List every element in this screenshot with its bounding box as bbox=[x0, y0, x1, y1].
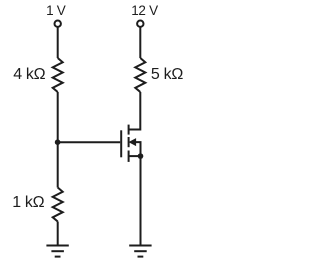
svg-text:4 kΩ: 4 kΩ bbox=[13, 66, 45, 83]
gate bar bbox=[120, 130, 122, 157]
wire 12V terminal to R3 top bbox=[139, 27, 141, 58]
wire R2 bottom to ground bbox=[57, 222, 59, 246]
channel drain segment bbox=[128, 125, 130, 135]
svg-text:5 kΩ: 5 kΩ bbox=[151, 66, 183, 83]
svg-text:1 kΩ: 1 kΩ bbox=[12, 194, 44, 211]
channel body segment bbox=[128, 137, 130, 147]
resistor R3 5 kOhm bbox=[135, 58, 145, 92]
bulk arrow bbox=[130, 139, 136, 145]
svg-text:12 V: 12 V bbox=[131, 3, 158, 18]
wire source of M1 to ground bbox=[140, 156, 142, 245]
channel source segment bbox=[128, 151, 130, 162]
junction dot source/bulk bbox=[138, 153, 144, 159]
resistor R1 4 kOhm bbox=[53, 58, 63, 92]
wire 1V terminal to R1 top bbox=[57, 27, 59, 58]
ground (right) bbox=[129, 246, 151, 257]
transistor M1 n-channel MOSFET bbox=[121, 125, 140, 162]
junction dot node A bbox=[55, 139, 61, 145]
terminal 12 V bbox=[137, 21, 143, 27]
source stub bbox=[129, 155, 141, 157]
bulk wire to source bbox=[135, 142, 141, 156]
wire R1 bottom to node A and R2 top bbox=[57, 92, 59, 188]
terminal 1 V bbox=[55, 21, 61, 27]
wire R3 bottom to drain of M1 bbox=[129, 92, 141, 130]
resistor R2 1 kOhm bbox=[53, 188, 63, 222]
wire node A to gate of M1 bbox=[58, 141, 120, 143]
svg-text:1 V: 1 V bbox=[46, 3, 66, 18]
ground (left) bbox=[46, 246, 68, 257]
